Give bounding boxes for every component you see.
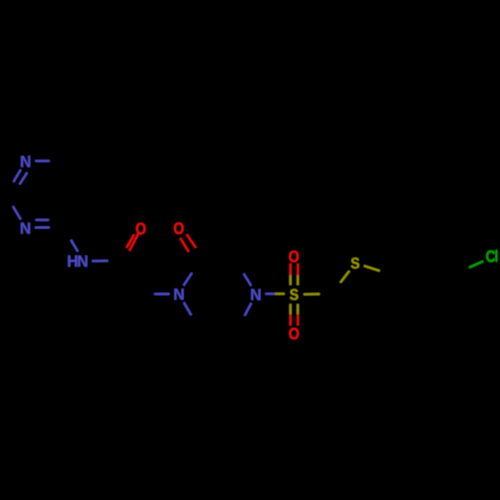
atom label S (sulfonyl): [290, 289, 298, 300]
bond N3-C2 pyrimidine (N half): [13, 206, 21, 219]
bond N4-S sulfonamide (N half): [265, 293, 275, 295]
bond N4-S sulfonamide (S half): [275, 293, 285, 295]
bond N3=C4 pyrimidine inner (N half): [35, 219, 49, 221]
bond N1-C6 pyrimidine (N half): [35, 160, 50, 162]
bond S-C2 thiophene (S half): [304, 293, 320, 295]
bond S1-C2 thiophene (S half): [340, 271, 349, 283]
atom label N (pyrimidine N3): [21, 223, 30, 234]
bond C3-N4 piperazinone (N half): [244, 274, 252, 286]
atom label N (piperazinone N1): [174, 289, 183, 300]
atom label O (piperazinone carbonyl): [174, 223, 184, 235]
bond S1-C7a thiophene (S half): [364, 266, 380, 271]
bond C2=O piperazinone line1 (O half): [180, 238, 188, 252]
bond S=O top line2 (S half): [297, 275, 299, 285]
bond CH2-N1 piperazinone (N half): [154, 293, 169, 295]
bond C4-N amide (N half): [71, 240, 78, 252]
atom label O (sulfonyl bottom): [289, 328, 299, 340]
bond C5-N4 piperazinone (N half): [245, 303, 252, 316]
bond C2=O piperazinone line2 (O half): [187, 234, 196, 247]
atom label N (piperazinone N4): [251, 289, 260, 300]
bond C=O amide line2 (O half): [127, 235, 135, 248]
atom label O (sulfonyl top): [289, 251, 299, 263]
bond N3=C4 pyrimidine main (N half): [35, 226, 50, 228]
bond N-C carbonyl (N half): [92, 260, 108, 262]
atom label S (thiophene): [351, 258, 359, 269]
bond N1-C2 piperazinone (N half): [184, 273, 193, 286]
bond S=O bottom line1 (O half): [289, 314, 291, 325]
atom label O (amide carbonyl): [136, 223, 146, 235]
atom label N (pyrimidine N1): [21, 156, 30, 167]
bond S=O bottom line2 (S half): [297, 304, 299, 314]
bond S=O top line1 (S half): [289, 275, 291, 285]
bond N1-C6 piperazinone (N half): [184, 302, 191, 315]
bond C2=N1 pyrimidine main (N half): [13, 170, 20, 182]
bond S=O top line1 (O half): [289, 263, 291, 275]
bond C5-Cl (Cl half): [469, 261, 483, 267]
bond C2=N1 pyrimidine inner (N half): [20, 172, 28, 184]
bond S=O top line2 (O half): [297, 263, 299, 275]
bond C=O amide line1 (O half): [129, 234, 138, 251]
atom label HN (amide): [68, 256, 87, 267]
bond S=O bottom line1 (S half): [289, 304, 291, 314]
atom label Cl (chloro): [486, 250, 497, 262]
bond S=O bottom line2 (O half): [297, 314, 299, 325]
